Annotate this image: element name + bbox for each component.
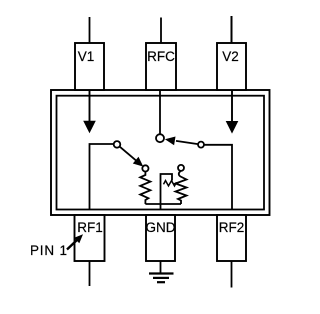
svg-text:V2: V2 <box>222 49 239 64</box>
svg-text:RF2: RF2 <box>219 220 245 235</box>
svg-text:RFC: RFC <box>147 49 175 64</box>
svg-text:RF1: RF1 <box>77 220 103 235</box>
svg-text:V1: V1 <box>78 49 95 64</box>
svg-text:GND: GND <box>146 220 176 235</box>
svg-text:PIN 1: PIN 1 <box>30 243 68 258</box>
